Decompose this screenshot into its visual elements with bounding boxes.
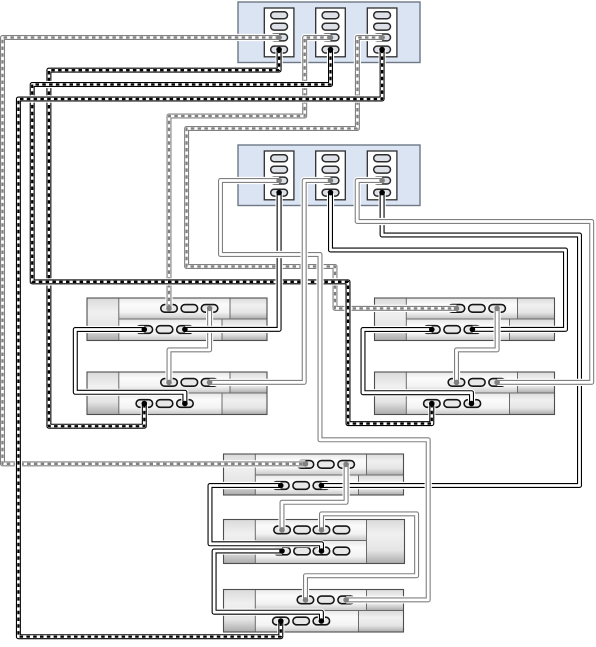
wire chain R1 top P3 to R2 top P1 — [454, 306, 500, 386]
controller C2 (bottom) chassis — [238, 145, 420, 206]
wire C1 slotB P3 to shelf L1 top P1 — [166, 35, 333, 312]
wire C2 slotC P3 to shelf R2 top P3 — [357, 178, 592, 386]
shelf B2 (bottom chain middle) bottom IOM ports — [274, 547, 350, 555]
shelf R1 (right top) bottom IOM ports — [424, 326, 481, 334]
shelf B2 (bottom chain middle) top IOM ports — [274, 526, 350, 534]
wire loop R1 bottom P1 to R2 bottom P3 — [363, 327, 474, 407]
C2 (bottom) HBA slot B — [316, 151, 346, 200]
shelf R1 (right top) top IOM ports — [448, 305, 505, 313]
shelf B3 (bottom chain bottom) top IOM ports — [297, 596, 354, 604]
controller C1 (top) chassis — [238, 2, 420, 63]
shelf B3 (bottom chain bottom) bottom IOM ports — [273, 617, 330, 625]
disk shelf B2 (bottom chain middle) chassis — [224, 520, 405, 564]
shelf L2 (left bottom) bottom IOM ports — [136, 400, 193, 408]
shelf L2 (left bottom) top IOM ports — [161, 379, 218, 387]
shelf R2 (right bottom) top IOM ports — [448, 379, 505, 387]
C1 (top) HBA slot A — [264, 8, 294, 57]
disk shelf B3 (bottom chain bottom) chassis — [224, 590, 404, 633]
shelf R2 (right bottom) bottom IOM ports — [424, 400, 481, 408]
wire C1 slotA P3 to shelf B1 top P1 — [3, 35, 309, 467]
wire loop B2 bottom P1 to B3 bottom P3 — [214, 548, 324, 624]
wire C1 slotA P4 to shelf L2 bottom P1 — [49, 47, 282, 426]
wire C2 slotB P3 to shelf L2 top P3 — [207, 178, 334, 386]
disk shelf R1 (right top) chassis — [375, 298, 555, 341]
wire C2 slotC P4 to shelf B1 bottom P3 — [319, 190, 580, 489]
wire chain B2 top P3 to B3 top P1 — [303, 514, 417, 603]
wire chain L1 top P3 to L2 top P1 — [166, 306, 212, 386]
disk shelf B1 (bottom chain top) chassis — [224, 454, 404, 495]
wire loop B1 bottom P1 to B2 bottom P3 — [210, 483, 324, 554]
C2 (bottom) HBA slot A — [264, 151, 294, 200]
wire C2 slotA P3 to shelf B3 top P3 — [221, 178, 429, 603]
wire C2 slotA P4 to shelf L1 bottom P3 — [182, 190, 282, 332]
disk shelf L2 (left bottom) chassis — [87, 372, 267, 415]
C2 (bottom) HBA slot C — [367, 151, 397, 200]
shelf L1 (left top) bottom IOM ports — [136, 326, 193, 334]
wire C1 slotC P3 to shelf R1 top P1 — [187, 35, 460, 312]
disk shelf L1 (left top) chassis — [87, 298, 267, 341]
shelf B1 (bottom chain top) bottom IOM ports — [273, 482, 330, 490]
wire C1 slotB P4 to shelf R2 bottom P1 — [32, 47, 434, 424]
wire loop L1 bottom P1 to L2 bottom P3 — [75, 327, 187, 407]
wire chain B1 top P3 to B2 top P1 — [279, 462, 349, 533]
wire C2 slotB P4 to shelf R1 bottom P3 — [328, 190, 566, 332]
C1 (top) HBA slot C — [367, 8, 397, 57]
shelf L1 (left top) top IOM ports — [161, 305, 218, 313]
shelf B1 (bottom chain top) top IOM ports — [297, 461, 354, 469]
disk shelf R2 (right bottom) chassis — [375, 372, 555, 415]
C1 (top) HBA slot B — [316, 8, 346, 57]
wire C1 slotC P4 to shelf B3 bottom P1 — [18, 47, 385, 637]
